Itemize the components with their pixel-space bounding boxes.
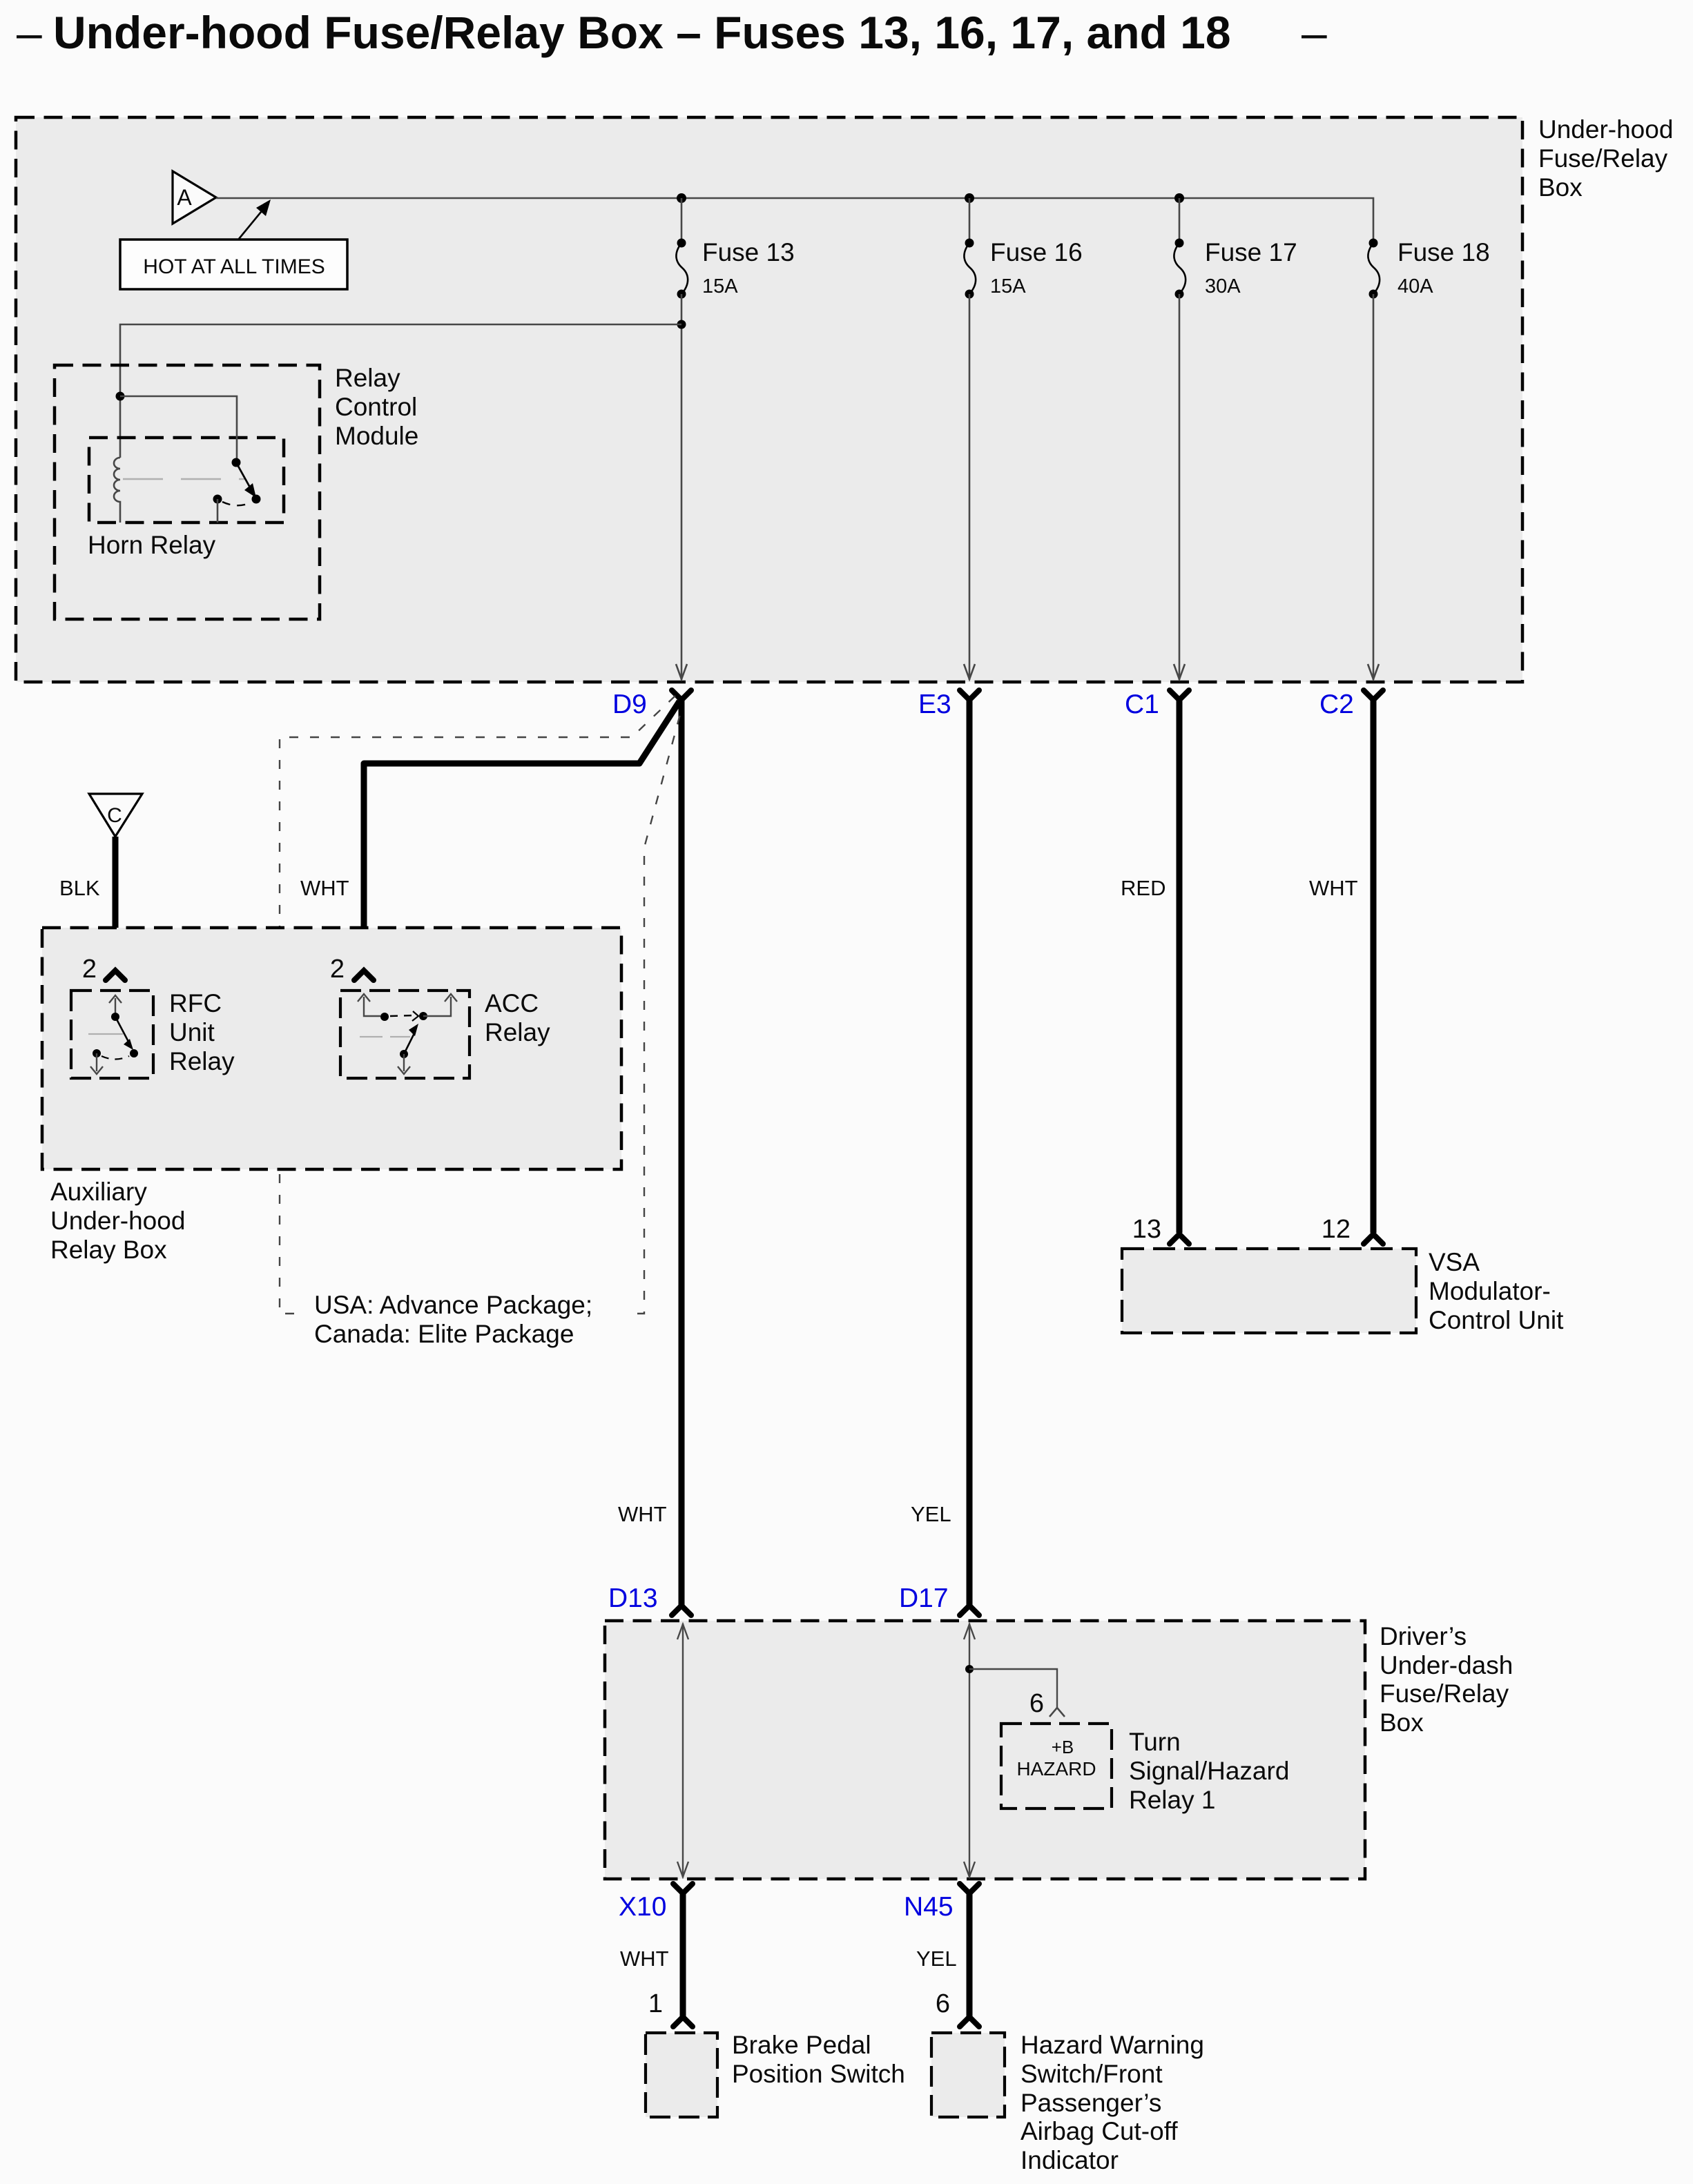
svg-text:USA: Advance Package;: USA: Advance Package; [314, 1291, 592, 1319]
svg-text:2: 2 [82, 955, 97, 984]
svg-text:Control Unit: Control Unit [1429, 1306, 1564, 1334]
wire: fuse 13 to D9 with arrowhead at box edge [676, 294, 687, 680]
svg-text:Canada: Elite Package: Canada: Elite Package [314, 1320, 574, 1348]
driver's under-dash fuse/relay box [605, 1621, 1365, 1879]
svg-text:Relay: Relay [485, 1018, 550, 1046]
connector pin 1 (brake pedal switch) [648, 1989, 693, 2027]
svg-text:RFC: RFC [169, 989, 222, 1017]
svg-text:Fuse/Relay: Fuse/Relay [1380, 1679, 1509, 1708]
svg-text:–: – [1302, 7, 1327, 58]
turn signal/hazard relay 1 box [1001, 1724, 1112, 1808]
brake pedal position switch box [646, 2033, 717, 2117]
label: RED (C1 wire) [1121, 876, 1165, 900]
svg-text:Under-hood Fuse/Relay Box – Fu: Under-hood Fuse/Relay Box – Fuses 13, 16… [53, 7, 1231, 58]
svg-text:Airbag Cut-off: Airbag Cut-off [1020, 2117, 1178, 2145]
svg-text:E3: E3 [918, 690, 951, 719]
horn relay box [88, 438, 284, 559]
svg-text:Module: Module [335, 422, 418, 450]
svg-text:HAZARD: HAZARD [1016, 1758, 1096, 1780]
wire: junction to switch pivot [120, 396, 237, 461]
svg-text:D13: D13 [608, 1583, 658, 1613]
label: YEL (D17 wire) [911, 1502, 951, 1526]
horn relay contacts [213, 495, 261, 523]
svg-text:N45: N45 [904, 1892, 954, 1922]
svg-text:15A: 15A [990, 275, 1026, 298]
RFC relay internals [88, 995, 138, 1074]
node: bus junction at fuse 17 [1174, 193, 1184, 203]
option region dashed outline (USA/Canada package) [280, 696, 680, 1354]
svg-text:X10: X10 [619, 1892, 666, 1922]
svg-text:Control: Control [335, 393, 417, 421]
wire: X10 to brake pedal position switch (WHT, thick) [680, 1892, 686, 2017]
connector pin 2 (RFC) [82, 955, 125, 984]
fuse 18 (40A) [1368, 238, 1489, 299]
wire: D9 to D13 (WHT, thick) [679, 699, 685, 1605]
svg-text:Relay Box: Relay Box [50, 1236, 167, 1264]
svg-text:1: 1 [648, 1989, 663, 2018]
connector C1 [1125, 690, 1189, 719]
label: Driver's Under-dash Fuse/Relay Box [1380, 1622, 1513, 1737]
auxiliary under-hood relay box [42, 928, 621, 1264]
label: WHT (ACC feed) [300, 876, 349, 900]
wire: fuse 18 to C2 with arrowhead at box edge [1368, 294, 1379, 680]
svg-text:2: 2 [330, 955, 345, 984]
svg-text:13: 13 [1132, 1215, 1161, 1244]
svg-text:Brake Pedal: Brake Pedal [732, 2031, 871, 2059]
callout arrow to wire [239, 199, 271, 239]
svg-text:Signal/Hazard: Signal/Hazard [1129, 1757, 1289, 1785]
svg-text:Under-dash: Under-dash [1380, 1651, 1513, 1679]
svg-text:C2: C2 [1319, 690, 1354, 719]
svg-text:C: C [107, 804, 122, 827]
horn relay coil-link (mechanical) [123, 478, 244, 480]
svg-text:Relay 1: Relay 1 [1129, 1786, 1215, 1814]
svg-text:Fuse 16: Fuse 16 [990, 238, 1083, 266]
svg-text:15A: 15A [702, 275, 738, 298]
label: USA/Canada package note [314, 1291, 592, 1348]
svg-text:BLK: BLK [59, 876, 100, 900]
svg-text:Relay: Relay [169, 1047, 235, 1075]
wire: triangle C to RFC relay pin 2 (BLK, thick) [113, 837, 119, 968]
ACC relay box [340, 989, 550, 1078]
svg-text:ACC: ACC [485, 989, 539, 1017]
title [17, 7, 1327, 58]
label: Under-hood Fuse/Relay Box [1538, 115, 1673, 202]
connector D13 [608, 1583, 691, 1615]
svg-text:Turn: Turn [1129, 1728, 1181, 1756]
svg-text:Modulator-: Modulator- [1429, 1277, 1551, 1305]
svg-text:Relay: Relay [335, 364, 400, 392]
fuse 13 (15A) [676, 238, 794, 299]
wire: fuse 16 to E3 with arrowhead at box edge [964, 294, 975, 680]
wire: bus drop to fuse 17 [1179, 198, 1181, 243]
relay control module box [55, 364, 418, 619]
svg-text:Box: Box [1380, 1708, 1424, 1737]
wire: fuse 17 to C1 with arrowhead at box edge [1174, 294, 1185, 680]
svg-text:WHT: WHT [620, 1947, 669, 1971]
horn relay coil [114, 458, 120, 523]
label: BLK [59, 876, 100, 900]
RFC unit relay box [71, 989, 235, 1078]
svg-text:40A: 40A [1397, 275, 1433, 298]
connector pin 2 (ACC) [330, 955, 374, 984]
svg-text:YEL: YEL [911, 1502, 951, 1526]
label: WHT (C2 wire) [1309, 876, 1358, 900]
svg-text:WHT: WHT [618, 1502, 667, 1526]
svg-text:A: A [177, 185, 192, 210]
wire: thick branch from D9 to ACC relay pin 2 [364, 701, 679, 968]
node: bus junction at fuse 13 [677, 193, 686, 203]
wire: fuse 13 branch to relay control module [120, 324, 681, 458]
svg-text:Auxiliary: Auxiliary [50, 1178, 147, 1206]
wire: branch to turn signal/hazard relay pin 6 [969, 1669, 1057, 1708]
wire: C2 to VSA pin 12 (WHT, thick) [1371, 699, 1377, 1233]
svg-text:WHT: WHT [1309, 876, 1358, 900]
power source triangle A [173, 171, 216, 224]
svg-text:Switch/Front: Switch/Front [1020, 2060, 1163, 2088]
connector D9 [612, 690, 691, 719]
svg-text:Fuse 18: Fuse 18 [1397, 238, 1490, 266]
svg-text:RED: RED [1121, 876, 1165, 900]
connector D17 [899, 1583, 979, 1615]
svg-text:Fuse 17: Fuse 17 [1205, 238, 1297, 266]
label: WHT (X10 wire) [620, 1947, 669, 1971]
svg-text:Unit: Unit [169, 1018, 215, 1046]
svg-text:Fuse/Relay: Fuse/Relay [1538, 144, 1668, 173]
svg-text:6: 6 [1029, 1689, 1044, 1718]
wire: D17 through box to N45 [964, 1624, 975, 1878]
svg-text:HOT AT ALL TIMES: HOT AT ALL TIMES [143, 255, 325, 278]
label: Turn Signal/Hazard Relay 1 [1129, 1728, 1289, 1814]
svg-text:Fuse 13: Fuse 13 [702, 238, 795, 266]
svg-text:Driver’s: Driver’s [1380, 1622, 1467, 1650]
svg-text:Box: Box [1538, 173, 1583, 202]
svg-text:YEL: YEL [916, 1947, 957, 1971]
node: junction to hazard relay [965, 1665, 974, 1673]
svg-text:C1: C1 [1125, 690, 1159, 719]
connector pin 6 (hazard relay) [1029, 1689, 1065, 1718]
hazard warning switch box [931, 2033, 1005, 2117]
svg-text:6: 6 [936, 1989, 950, 2018]
svg-text:WHT: WHT [300, 876, 349, 900]
ground triangle C [89, 794, 142, 837]
connector E3 [918, 690, 979, 719]
horn relay switch blade [232, 458, 257, 498]
wire: C1 to VSA pin 13 (RED, thick) [1177, 699, 1183, 1233]
svg-text:D17: D17 [899, 1583, 949, 1613]
svg-text:+B: +B [1052, 1737, 1074, 1757]
svg-text:Hazard Warning: Hazard Warning [1020, 2031, 1204, 2059]
fuse 16 (15A) [964, 238, 1082, 299]
connector pin 13 (VSA) [1132, 1215, 1189, 1244]
label: Brake Pedal Position Switch [732, 2031, 905, 2088]
connector pin 6 (hazard warning switch) [936, 1989, 979, 2027]
svg-text:Under-hood: Under-hood [50, 1207, 185, 1235]
wire: bus from A to fuse 18 column [216, 198, 1373, 243]
node: coil feed junction [116, 392, 125, 401]
wire: D13 through box to X10 [677, 1624, 688, 1878]
connector pin 12 (VSA) [1322, 1215, 1383, 1244]
svg-text:Under-hood: Under-hood [1538, 115, 1673, 144]
wire: bus drop to fuse 13 [681, 198, 683, 243]
svg-text:30A: 30A [1205, 275, 1241, 298]
ACC relay internals [358, 994, 457, 1074]
node: junction fuse13/relay-control feed [677, 320, 686, 329]
wire: bus drop to fuse 16 [969, 198, 971, 243]
node: bus junction at fuse 16 [965, 193, 974, 203]
label: WHT (D13 wire) [618, 1502, 667, 1526]
wire: N45 to hazard warning switch (YEL, thick) [967, 1892, 973, 2017]
connector N45 [904, 1884, 979, 1922]
label: Hazard Warning Switch/Front Passenger's Airbag Cut-off Indicator [1020, 2031, 1204, 2174]
svg-text:D9: D9 [612, 690, 647, 719]
svg-text:VSA: VSA [1429, 1248, 1480, 1276]
svg-text:Position Switch: Position Switch [732, 2060, 905, 2088]
fuse 17 (30A) [1174, 238, 1297, 299]
label: YEL (N45 wire) [916, 1947, 957, 1971]
HOT AT ALL TIMES box [120, 240, 347, 289]
svg-text:Horn Relay: Horn Relay [88, 531, 216, 559]
wire: E3 to D17 (YEL, thick) [967, 699, 973, 1605]
under-hood fuse/relay box [16, 117, 1522, 682]
svg-text:Passenger’s: Passenger’s [1020, 2089, 1161, 2117]
svg-text:12: 12 [1322, 1215, 1351, 1244]
connector X10 [619, 1884, 693, 1922]
svg-text:–: – [17, 7, 42, 58]
svg-text:Indicator: Indicator [1020, 2146, 1119, 2174]
VSA modulator-control unit box [1122, 1248, 1564, 1334]
connector C2 [1319, 690, 1383, 719]
